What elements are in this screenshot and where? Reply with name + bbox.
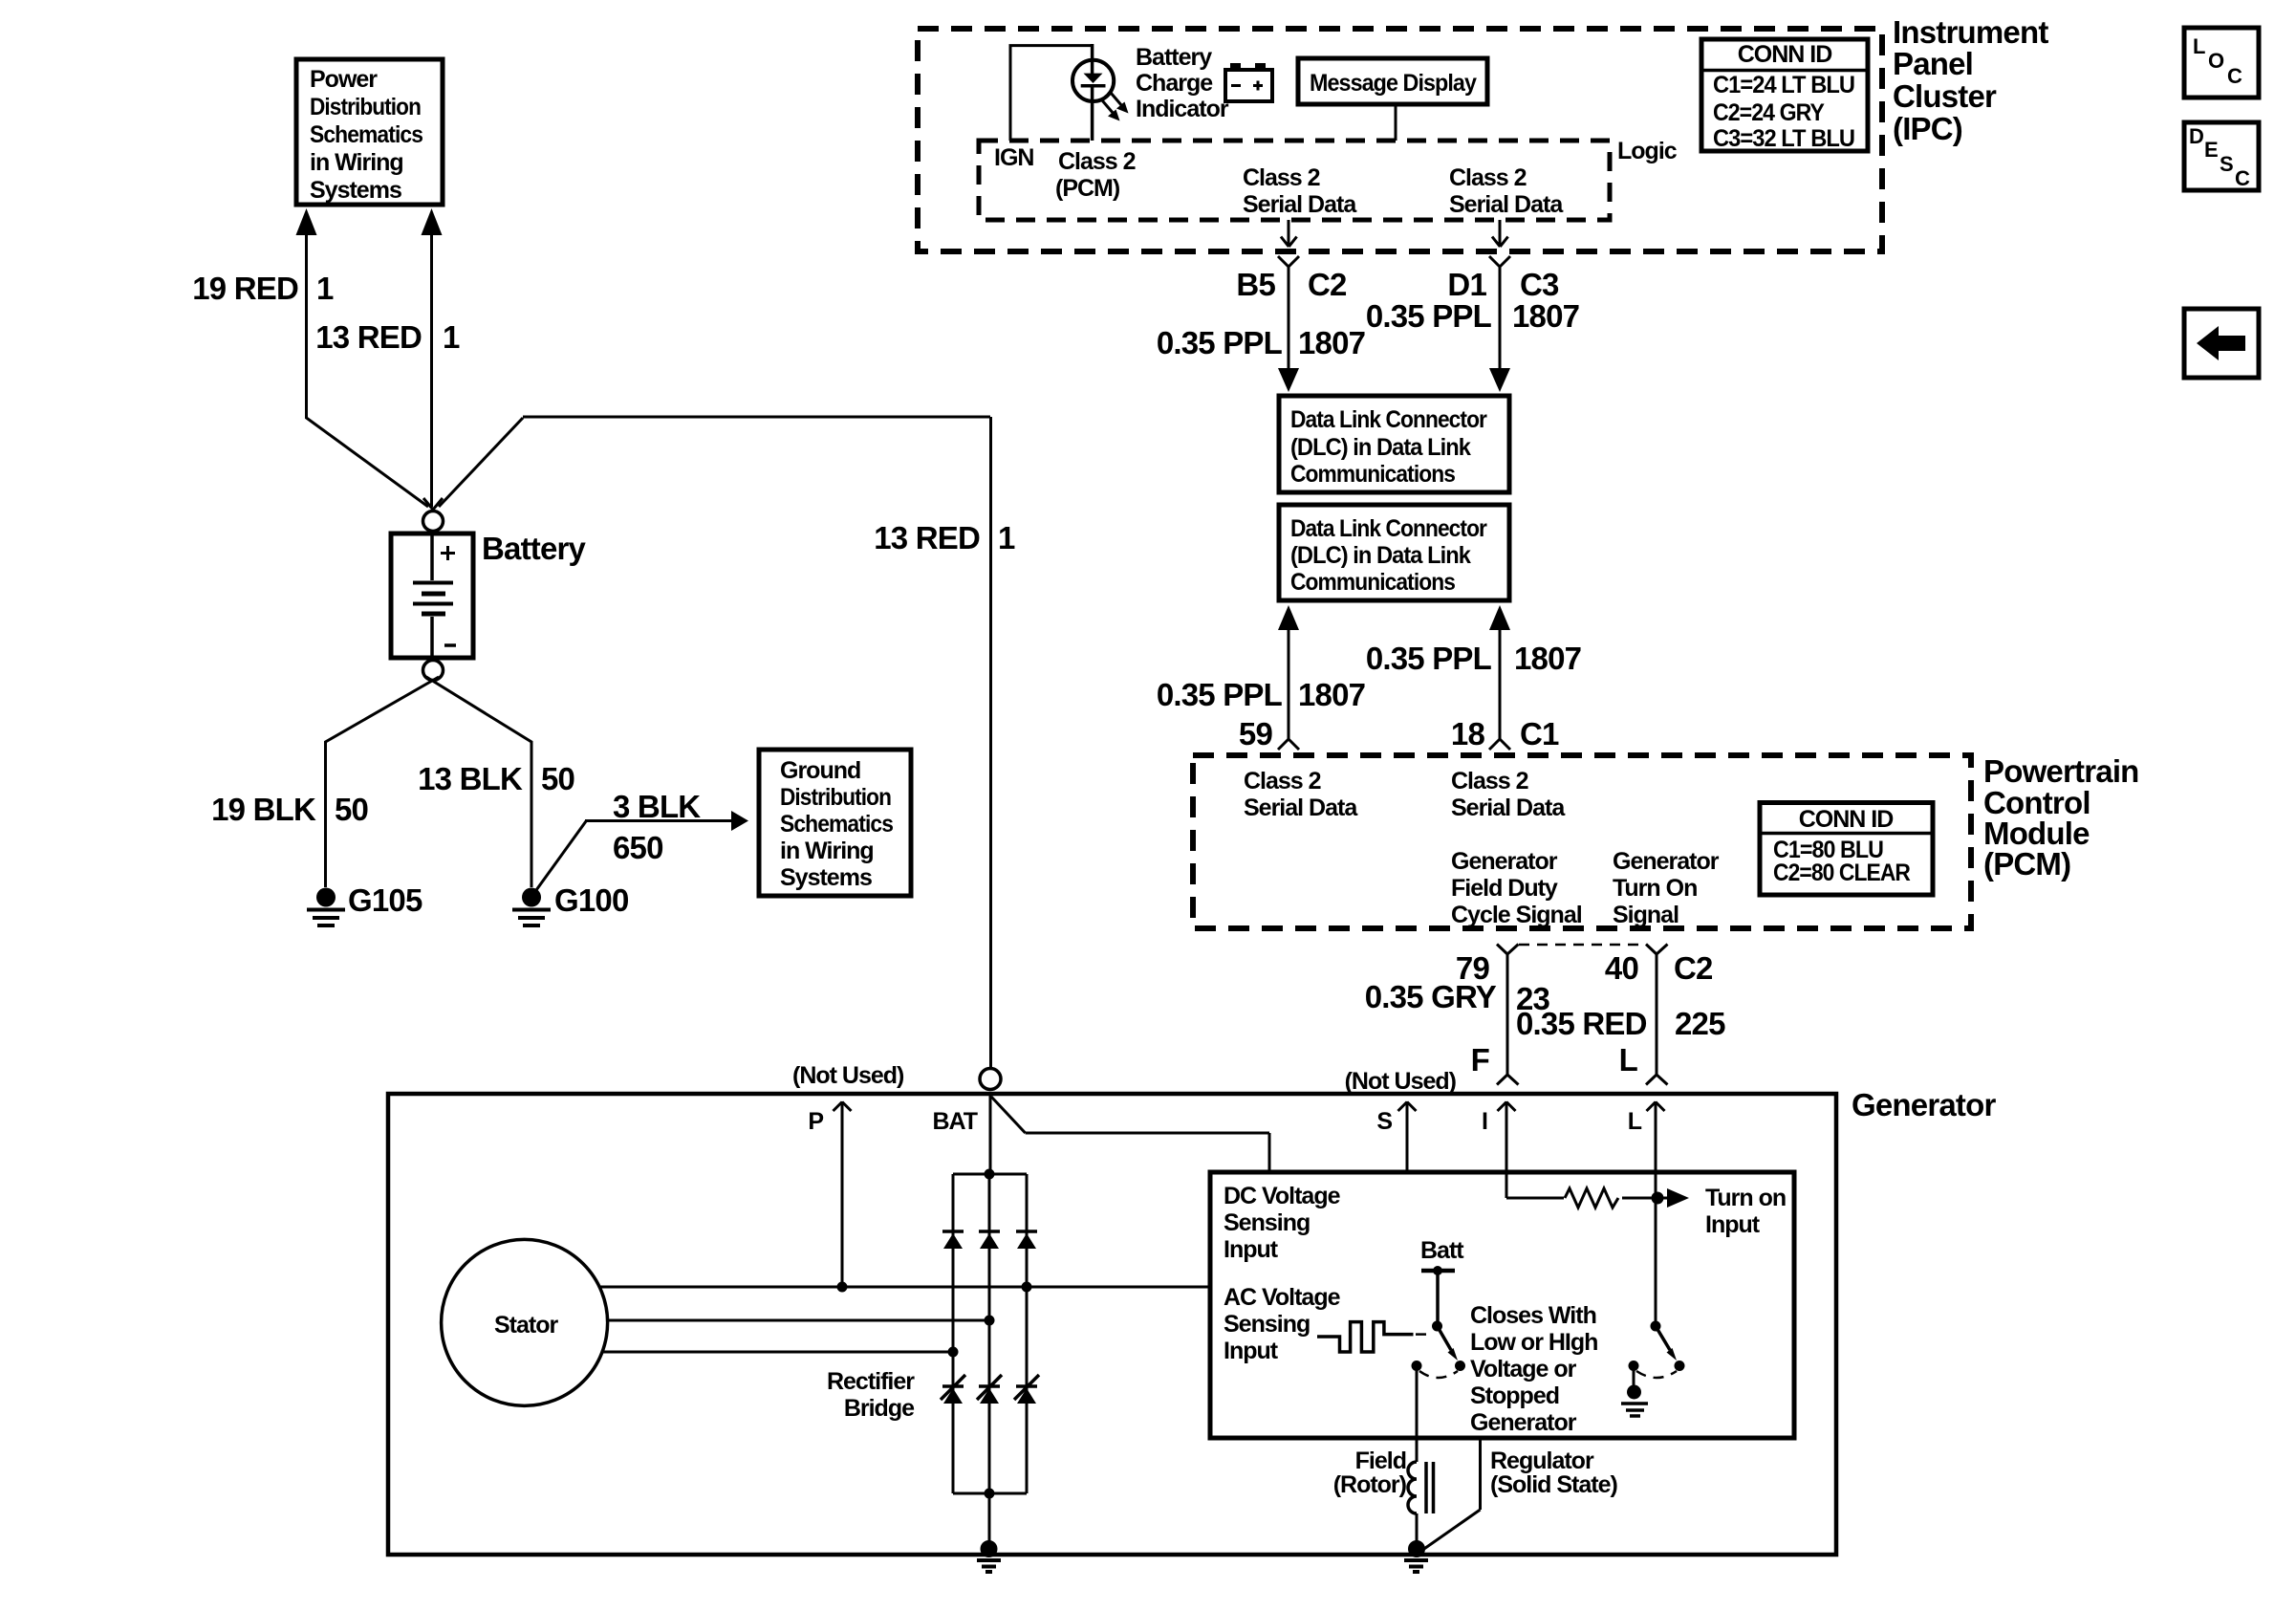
svg-text:Battery: Battery <box>1136 44 1212 71</box>
svg-text:Field: Field <box>1355 1448 1406 1474</box>
ground regulator internal <box>1633 1370 1635 1385</box>
wire resistor to L node <box>1622 1197 1667 1200</box>
wire IGN <box>1009 46 1094 141</box>
svg-text:L: L <box>2193 34 2205 58</box>
switch SW2 pivot <box>1651 1321 1661 1332</box>
svg-text:Turn on: Turn on <box>1705 1185 1786 1211</box>
battery <box>391 533 473 658</box>
svg-text:Schematics: Schematics <box>780 811 893 838</box>
junction top bus <box>985 1169 995 1180</box>
connector C3 at IPC <box>1489 256 1510 368</box>
svg-text:(Not Used): (Not Used) <box>792 1062 904 1089</box>
svg-text:Input: Input <box>1224 1338 1279 1364</box>
icon box DESC <box>2184 122 2259 190</box>
icon box LOC <box>2184 28 2259 98</box>
svg-text:Class 2: Class 2 <box>1243 164 1320 191</box>
arrowhead 3 BLK 650 <box>731 811 748 831</box>
icon box back-arrow <box>2184 309 2259 378</box>
svg-text:1807: 1807 <box>1298 325 1365 360</box>
box Generator <box>388 1094 1836 1555</box>
wire battery positive to 13 RED feed <box>439 417 991 1067</box>
connector L at generator <box>1646 1075 1668 1085</box>
svg-text:1807: 1807 <box>1514 641 1581 676</box>
wire BAT sense to regulator <box>991 1097 1269 1172</box>
AC pulse waveform <box>1317 1322 1414 1352</box>
svg-text:(DLC) in Data Link: (DLC) in Data Link <box>1290 542 1471 569</box>
svg-text:Input: Input <box>1224 1236 1279 1263</box>
svg-text:Stopped: Stopped <box>1470 1382 1559 1409</box>
wire battery negative to G100 <box>426 677 531 887</box>
svg-text:Signal: Signal <box>1613 902 1679 928</box>
wire L to switch <box>1655 1172 1657 1321</box>
wire S (not used) <box>1406 1101 1409 1172</box>
svg-text:Voltage or: Voltage or <box>1470 1356 1577 1382</box>
svg-text:CONN ID: CONN ID <box>1738 41 1832 68</box>
svg-text:3 BLK: 3 BLK <box>613 789 701 824</box>
wire stator phase 3 <box>602 1351 953 1354</box>
dashed link waveform to switch <box>1416 1333 1433 1336</box>
svg-text:0.35 PPL: 0.35 PPL <box>1366 298 1492 334</box>
junction phase 3 left rail <box>948 1347 959 1358</box>
wire regulator case to ground <box>1421 1438 1481 1551</box>
junction turn-on node <box>1652 1192 1664 1205</box>
svg-text:Data Link Connector: Data Link Connector <box>1290 406 1487 433</box>
svg-text:Message Display: Message Display <box>1310 70 1477 97</box>
svg-text:Field Duty: Field Duty <box>1451 875 1558 902</box>
svg-text:BAT: BAT <box>932 1108 977 1135</box>
svg-text:19 BLK: 19 BLK <box>211 792 316 827</box>
svg-text:Distribution: Distribution <box>780 784 891 811</box>
svg-text:0.35 GRY: 0.35 GRY <box>1365 979 1497 1014</box>
svg-text:Communications: Communications <box>1290 461 1455 488</box>
switch SW1 blade <box>1438 1326 1452 1350</box>
svg-text:C1=24 LT BLU: C1=24 LT BLU <box>1713 72 1854 98</box>
LED light emission arrows <box>1111 93 1122 106</box>
svg-text:Generator: Generator <box>1451 848 1558 875</box>
svg-text:Input: Input <box>1705 1211 1761 1238</box>
svg-text:(DLC) in Data Link: (DLC) in Data Link <box>1290 434 1471 461</box>
svg-text:0.35 PPL: 0.35 PPL <box>1157 325 1283 360</box>
arrowhead at battery positive terminal <box>423 498 443 510</box>
svg-text:(Not Used): (Not Used) <box>1345 1068 1457 1095</box>
wire coil to ground <box>1416 1513 1419 1543</box>
wire I input <box>1505 1101 1508 1172</box>
svg-text:225: 225 <box>1675 1006 1725 1041</box>
svg-text:(Solid State): (Solid State) <box>1490 1471 1618 1498</box>
LED battery charge indicator <box>1091 44 1094 74</box>
svg-text:1: 1 <box>443 319 460 355</box>
svg-text:C2: C2 <box>1674 950 1713 986</box>
svg-text:Closes With: Closes With <box>1470 1302 1596 1329</box>
svg-text:L: L <box>1628 1108 1642 1135</box>
svg-text:(PCM): (PCM) <box>1983 846 2070 882</box>
zener Z1 (left rail) <box>941 1375 965 1400</box>
svg-text:(PCM): (PCM) <box>1055 175 1120 202</box>
connector C2 pin 40 at PCM bottom <box>1646 945 1668 955</box>
svg-text:Rectifier: Rectifier <box>827 1368 915 1395</box>
arrowhead B5 C2 (open) <box>1281 237 1297 248</box>
svg-text:50: 50 <box>541 761 574 796</box>
arrowhead D1 C3 (open) <box>1492 237 1508 248</box>
svg-text:C3: C3 <box>1520 267 1559 302</box>
svg-text:Regulator: Regulator <box>1490 1448 1594 1474</box>
svg-text:C1: C1 <box>1520 716 1559 751</box>
svg-text:O: O <box>2208 49 2224 73</box>
svg-text:40: 40 <box>1605 950 1638 986</box>
table CONN ID (IPC) <box>1701 39 1868 151</box>
junction phase 2 middle rail <box>985 1316 995 1326</box>
wire battery negative to G105 <box>326 677 440 887</box>
svg-text:Charge: Charge <box>1136 70 1213 97</box>
svg-text:C2: C2 <box>1308 267 1347 302</box>
switch SW2 dashed arc <box>1636 1371 1677 1378</box>
switch SW2 blade <box>1656 1326 1670 1350</box>
battery icon <box>1225 70 1272 101</box>
svg-text:(Rotor): (Rotor) <box>1333 1471 1407 1498</box>
dashed connector strip F-L <box>1519 944 1645 947</box>
svg-text:C2=80 CLEAR: C2=80 CLEAR <box>1773 860 1911 886</box>
svg-text:F: F <box>1471 1042 1489 1078</box>
wire 3 BLK 650 from G100 <box>536 821 731 891</box>
junction P on stator phase 1 <box>837 1282 848 1293</box>
stator <box>442 1239 608 1405</box>
battery minus sign <box>444 643 456 647</box>
box Power Distribution Schematics <box>296 59 443 205</box>
switch SW1 dashed arc <box>1419 1371 1458 1378</box>
wire 13 RED to Power Distribution <box>430 235 433 507</box>
svg-text:59: 59 <box>1239 716 1273 751</box>
ground G105 <box>316 888 336 907</box>
svg-text:Powertrain: Powertrain <box>1983 753 2139 789</box>
svg-text:1807: 1807 <box>1298 677 1365 712</box>
table CONN ID (PCM) <box>1760 803 1933 896</box>
svg-text:D1: D1 <box>1447 267 1486 302</box>
svg-text:Communications: Communications <box>1290 569 1455 596</box>
svg-text:Serial Data: Serial Data <box>1449 191 1564 218</box>
wire B5 C2 serial data <box>1288 220 1290 246</box>
diode D2 (middle rail) <box>979 1230 1000 1233</box>
svg-text:0.35 RED: 0.35 RED <box>1516 1006 1647 1041</box>
arrowhead turn on input <box>1667 1188 1689 1208</box>
svg-text:Schematics: Schematics <box>310 121 422 148</box>
svg-text:Low or HIgh: Low or HIgh <box>1470 1329 1597 1356</box>
svg-text:in Wiring: in Wiring <box>310 149 403 176</box>
svg-text:50: 50 <box>335 792 368 827</box>
svg-text:Turn On: Turn On <box>1613 875 1697 902</box>
field coil (rotor) <box>1408 1462 1417 1513</box>
switch SW1 contacts <box>1455 1361 1465 1371</box>
box Data Link Connector 1 <box>1279 396 1509 492</box>
arrowhead I <box>1498 1102 1516 1112</box>
svg-text:Class 2: Class 2 <box>1451 768 1528 795</box>
svg-text:Sensing: Sensing <box>1224 1311 1310 1338</box>
wire P (not used) <box>841 1101 844 1287</box>
wire I to resistor <box>1506 1172 1564 1198</box>
svg-text:Bridge: Bridge <box>844 1395 915 1422</box>
connector C2 pin 79 at PCM bottom <box>1497 945 1519 955</box>
svg-text:(IPC): (IPC) <box>1893 111 1962 146</box>
switch SW2 contacts <box>1675 1361 1685 1371</box>
box Ground Distribution Schematics <box>759 750 911 896</box>
battery plus sign <box>441 546 455 560</box>
svg-text:Ground: Ground <box>780 757 860 784</box>
svg-text:S: S <box>1376 1108 1392 1135</box>
svg-text:Cycle Signal: Cycle Signal <box>1451 902 1582 928</box>
svg-text:G105: G105 <box>348 882 422 918</box>
arrowhead 13 RED <box>422 208 443 235</box>
svg-text:Serial Data: Serial Data <box>1244 795 1358 821</box>
wire bridge to case ground <box>988 1493 991 1543</box>
svg-text:Cluster: Cluster <box>1893 78 1997 114</box>
svg-text:Class 2: Class 2 <box>1244 768 1321 795</box>
box Powertrain Control Module (dashed) <box>1193 755 1971 928</box>
wire PCM pin 59 to DLC <box>1278 605 1299 630</box>
svg-text:Battery: Battery <box>482 531 587 566</box>
svg-text:C3=32 LT BLU: C3=32 LT BLU <box>1713 125 1854 152</box>
svg-text:1: 1 <box>316 271 334 306</box>
wire D1 C3 serial data <box>1499 220 1502 246</box>
svg-text:AC Voltage: AC Voltage <box>1224 1284 1341 1311</box>
wire generator turn on (L) <box>1656 954 1658 1075</box>
svg-text:Generator: Generator <box>1470 1409 1577 1436</box>
wire generator field duty (F) <box>1506 954 1509 1075</box>
svg-text:Generator: Generator <box>1852 1087 1996 1122</box>
svg-text:C2=24 GRY: C2=24 GRY <box>1713 99 1825 126</box>
svg-text:C: C <box>2227 64 2242 88</box>
box Message Display <box>1298 58 1487 104</box>
svg-text:19 RED: 19 RED <box>192 271 298 306</box>
wire Message Display to Logic <box>1395 104 1397 141</box>
wire stator phase 2 <box>608 1319 990 1322</box>
box Data Link Connector 2 <box>1279 505 1509 600</box>
svg-text:1807: 1807 <box>1512 298 1579 334</box>
svg-text:in Wiring: in Wiring <box>780 838 874 864</box>
connector C2 at IPC <box>1278 256 1299 368</box>
svg-text:IGN: IGN <box>994 144 1033 171</box>
wire field from SW1 <box>1416 1370 1419 1462</box>
connector at PCM top (left) <box>1278 739 1299 750</box>
switch SW1 pivot <box>1432 1321 1442 1332</box>
junction bottom bus <box>985 1489 995 1499</box>
wire BAT into rectifier bridge <box>989 1096 992 1174</box>
svg-text:D: D <box>2189 124 2204 148</box>
svg-text:0.35 PPL: 0.35 PPL <box>1157 677 1283 712</box>
svg-text:650: 650 <box>613 830 663 865</box>
wire L input <box>1655 1101 1657 1172</box>
svg-text:Indicator: Indicator <box>1136 96 1229 122</box>
svg-text:E: E <box>2204 138 2219 162</box>
svg-text:13 RED: 13 RED <box>874 520 980 555</box>
svg-text:DC Voltage: DC Voltage <box>1224 1183 1341 1209</box>
svg-text:Power: Power <box>310 66 378 93</box>
node battery negative terminal <box>423 661 444 681</box>
diode D1 (left rail) <box>942 1230 964 1233</box>
svg-text:13 RED: 13 RED <box>315 319 422 355</box>
svg-text:CONN ID: CONN ID <box>1799 806 1894 833</box>
svg-text:Systems: Systems <box>780 864 872 891</box>
svg-text:Systems: Systems <box>310 177 401 204</box>
node BAT terminal <box>980 1069 1001 1090</box>
box Instrument Panel Cluster (dashed) <box>918 29 1882 251</box>
svg-text:1: 1 <box>998 520 1015 555</box>
wire stator phase 1 <box>599 1286 1210 1289</box>
arrowhead into DLC (right) <box>1489 368 1510 392</box>
svg-text:Class 2: Class 2 <box>1058 148 1136 175</box>
ground generator case (bridge) <box>981 1540 998 1557</box>
svg-text:Serial Data: Serial Data <box>1243 191 1357 218</box>
svg-text:B5: B5 <box>1236 267 1275 302</box>
connector C1 at PCM top (right) <box>1489 739 1510 750</box>
svg-text:L: L <box>1619 1042 1638 1078</box>
svg-text:Logic: Logic <box>1617 138 1678 164</box>
arrowhead into DLC (left) <box>1278 368 1299 392</box>
arrowhead 19 RED <box>296 208 317 235</box>
arrowhead P <box>834 1102 852 1112</box>
arrowhead S <box>1398 1102 1417 1112</box>
svg-text:Batt: Batt <box>1420 1237 1464 1264</box>
wire 19 RED to Power Distribution <box>307 235 429 507</box>
svg-text:Generator: Generator <box>1613 848 1720 875</box>
zener Z2 (middle rail) <box>977 1375 1002 1400</box>
connector F at generator <box>1497 1075 1519 1085</box>
battery internal plates <box>430 535 434 580</box>
svg-text:18: 18 <box>1451 716 1485 751</box>
svg-text:Serial Data: Serial Data <box>1451 795 1566 821</box>
rectifier bridge frame <box>953 1174 1027 1493</box>
svg-text:I: I <box>1482 1108 1487 1135</box>
svg-text:S: S <box>2220 152 2234 176</box>
diode D3 (right rail) <box>1016 1230 1037 1233</box>
zener Z3 (right rail) <box>1014 1375 1039 1400</box>
wire PCM pin 18 to DLC <box>1489 605 1510 630</box>
arrowhead L <box>1647 1102 1665 1112</box>
svg-text:Stator: Stator <box>494 1312 559 1339</box>
svg-text:C: C <box>2235 166 2250 190</box>
svg-text:Distribution: Distribution <box>310 94 421 120</box>
svg-text:Data Link Connector: Data Link Connector <box>1290 515 1487 542</box>
box Logic (dashed) <box>979 141 1610 220</box>
svg-text:G100: G100 <box>554 882 629 918</box>
svg-text:13 BLK: 13 BLK <box>418 761 523 796</box>
box Regulator (Solid State) <box>1210 1172 1794 1438</box>
svg-text:Class 2: Class 2 <box>1449 164 1527 191</box>
svg-text:0.35 PPL: 0.35 PPL <box>1366 641 1492 676</box>
node battery positive terminal <box>423 512 444 532</box>
svg-text:Panel: Panel <box>1893 46 1973 81</box>
ground G100 <box>522 888 541 907</box>
svg-text:P: P <box>808 1108 823 1135</box>
resistor (turn on) <box>1565 1188 1618 1208</box>
ground field rotor <box>1408 1540 1425 1557</box>
junction phase 1 right rail <box>1022 1282 1032 1293</box>
svg-text:Sensing: Sensing <box>1224 1209 1310 1236</box>
svg-text:Instrument: Instrument <box>1893 14 2048 50</box>
